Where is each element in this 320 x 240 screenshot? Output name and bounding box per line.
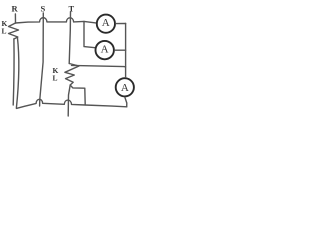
wire: phase T vertical down to middle resistor — [69, 12, 70, 64]
svg-text:T: T — [69, 4, 75, 14]
ammeter A1 circle — [97, 15, 115, 33]
wire: A2 right stub — [115, 49, 126, 51]
wire: phase R vertical drop from label to node K — [14, 14, 16, 23]
wire: bottom bus from left corner to A3 drop, hops over S and T — [16, 99, 126, 108]
resistor (middle, terminals K-L) zigzag — [65, 64, 79, 86]
svg-text:A: A — [102, 17, 110, 29]
wire: A3 bottom stub down to bus — [125, 97, 127, 106]
wire: left branch vertical (outer line) down to bus corner — [16, 37, 18, 108]
svg-text:A: A — [101, 43, 109, 55]
resistor (left, terminals K-L) zigzag — [9, 23, 19, 39]
wire: right vertical bar from A1 stub down to A3 top — [125, 24, 127, 78]
wire: tap from middle resistor K to right bar — [72, 65, 126, 67]
wire: stub below middle resistor through bottom hop — [68, 85, 70, 116]
wire: A1 right stub — [116, 23, 126, 25]
wire: middle resistor L lead to bus — [70, 85, 85, 105]
wire: phase S vertical, hops behind top and bottom wires — [40, 13, 44, 106]
ammeter A2 circle — [96, 41, 114, 59]
ammeter A3 circle — [116, 78, 134, 96]
svg-text:R: R — [12, 4, 19, 14]
svg-text:L: L — [2, 27, 7, 36]
svg-text:S: S — [41, 4, 46, 14]
wire: top horizontal from node K to right, hops over S and T — [16, 18, 96, 23]
svg-text:L: L — [53, 74, 58, 83]
svg-text:A: A — [121, 82, 129, 94]
wire: branch down from T-junction to ammeter A2 — [84, 21, 95, 47]
wire: left branch vertical (inner line) down to bus — [12, 39, 15, 105]
